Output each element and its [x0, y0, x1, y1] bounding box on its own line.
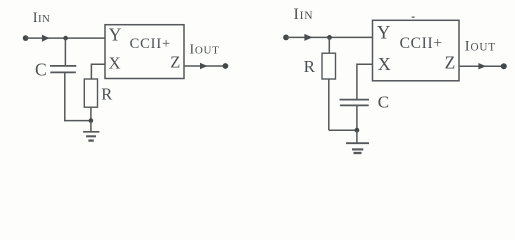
pin label X (right box) — [378, 54, 391, 74]
label IOUT (right output current) — [465, 39, 496, 55]
resistor R (right circuit) — [322, 53, 336, 79]
svg-text:IOUT: IOUT — [190, 42, 220, 57]
label R (right resistor) — [304, 57, 316, 76]
wire: junction down to capacitor C — [64, 38, 66, 66]
label CCII+ (left) — [130, 36, 171, 52]
resistor R (left circuit) — [84, 79, 97, 107]
wire: capacitor bottom to bottom rail — [64, 72, 66, 121]
wire: bottom rail (right circuit) — [329, 129, 357, 131]
wire: left input terminal to Y pin — [26, 37, 105, 39]
svg-text:CCII+: CCII+ — [400, 35, 443, 52]
op-amp U1 CCII+ box (left) — [105, 25, 184, 79]
ground (right) — [346, 143, 369, 153]
arrowhead on left output wire — [200, 63, 207, 69]
svg-text:Z: Z — [170, 52, 180, 71]
wire: X pin stub (right) — [357, 64, 373, 99]
svg-text:R: R — [101, 85, 112, 104]
op-amp U2 CCII+ box (right) — [373, 20, 460, 81]
node: left input junction — [63, 36, 68, 41]
capacitor C (left circuit) top plate — [50, 65, 76, 67]
node: left ground junction — [89, 118, 94, 123]
output terminal dot (left) — [223, 63, 229, 69]
wire: ground stem (left) — [90, 121, 92, 132]
wire: resistor bottom to bottom rail (right) — [328, 79, 330, 130]
wire: resistor bottom to ground node — [90, 107, 92, 120]
capacitor C (left circuit) bottom plate — [50, 71, 76, 73]
svg-text:Z: Z — [445, 52, 456, 72]
pin label Y (left box) — [109, 25, 122, 45]
label CCII+ (right) — [400, 35, 443, 52]
svg-text:C: C — [35, 60, 47, 80]
label IIN (right input current) — [294, 6, 314, 23]
svg-text:CCII+: CCII+ — [130, 36, 171, 52]
wire: X pin stub (left) — [91, 64, 105, 79]
wire: Z pin to output terminal (left) — [184, 65, 225, 67]
wire: Z pin to output terminal (right) — [459, 65, 504, 67]
node: right input junction — [327, 35, 332, 40]
wire: junction down to resistor R (right) — [328, 37, 330, 53]
ground (left) — [83, 132, 99, 141]
pin label X (left box) — [109, 53, 121, 72]
label IOUT (left output current) — [190, 42, 220, 57]
svg-text:C: C — [378, 92, 389, 111]
node: right ground junction — [355, 128, 360, 133]
svg-text:Y: Y — [109, 25, 122, 45]
label R (left resistor) — [101, 85, 112, 104]
capacitor C (right circuit) bottom plate — [340, 104, 369, 106]
capacitor C (right circuit) top plate — [340, 99, 370, 101]
svg-text:IIN: IIN — [294, 6, 314, 23]
wire: bottom rail (left circuit) — [64, 120, 91, 122]
label C (left capacitor) — [35, 60, 47, 80]
svg-text:IIN: IIN — [33, 10, 50, 26]
label C (right capacitor) — [378, 92, 389, 111]
svg-text:IOUT: IOUT — [465, 39, 496, 55]
input terminal dot (right) — [283, 35, 289, 41]
svg-text:X: X — [109, 53, 121, 72]
svg-text:R: R — [304, 57, 316, 76]
wire: capacitor bottom to ground node (right) — [356, 105, 358, 130]
wire: ground stem (right) — [356, 130, 358, 143]
arrowhead on right input wire — [304, 34, 312, 41]
pin label Y (right box) — [377, 24, 390, 44]
label IIN (left input current) — [33, 10, 50, 26]
svg-text:Y: Y — [377, 24, 390, 44]
pin label Z (right box) — [445, 52, 456, 72]
pin label Z (left box) — [170, 52, 180, 71]
arrowhead on right output wire — [478, 63, 486, 69]
svg-text:X: X — [378, 54, 391, 74]
wire: right input terminal to Y pin — [286, 36, 373, 38]
input terminal dot (left) — [23, 35, 29, 41]
arrowhead on left input wire — [42, 35, 50, 42]
speckle mark above right box — [412, 16, 415, 18]
output terminal dot (right) — [501, 63, 507, 69]
